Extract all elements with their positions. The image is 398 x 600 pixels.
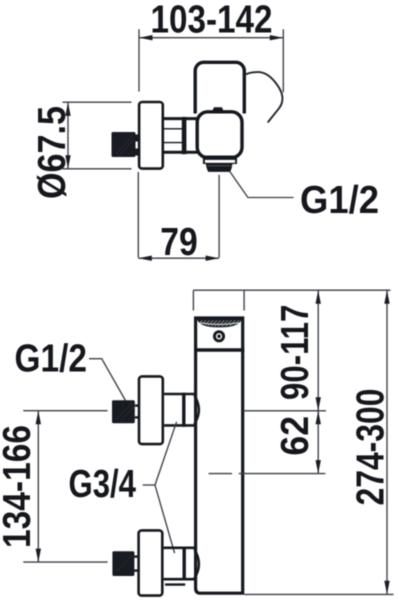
label G3/4 xyxy=(69,463,137,506)
wall nipple G1/2 thread (dark) xyxy=(112,132,140,157)
dimension line 103-142 xyxy=(139,35,283,40)
centerline of outlet (79 right extension) xyxy=(218,175,220,258)
svg-text:274-300: 274-300 xyxy=(350,389,393,506)
lever handle (upper rounded rect, clipped at body) xyxy=(195,62,244,134)
dimension line 274-300 xyxy=(384,289,389,594)
svg-text:90-117: 90-117 xyxy=(274,305,317,400)
extension line flange top xyxy=(63,101,132,103)
dimension text 103-142 xyxy=(151,0,273,42)
top extension line (dim 274-300 / 90-117) xyxy=(193,289,390,291)
centerline dash at outlet level xyxy=(209,473,326,475)
extension rectangle above bar (rail extent) xyxy=(193,290,244,310)
outlet collar xyxy=(203,156,237,165)
dimension 134-166 extension bottom xyxy=(23,561,107,563)
pipe between flange and body xyxy=(164,117,198,154)
dimension line 79 xyxy=(138,256,219,261)
extension line flange bottom xyxy=(63,168,132,170)
upper union nut xyxy=(164,393,199,427)
extension line left (wall plane) xyxy=(138,29,140,91)
extension line inlet center (right) xyxy=(244,410,326,412)
dimension text 274-300 (rotated) xyxy=(350,389,393,506)
svg-text:G3/4: G3/4 xyxy=(69,463,137,506)
leader line to G1/2 xyxy=(230,172,294,198)
upper nipple G1/2 thread (dark) xyxy=(112,400,138,423)
dimension text 90-117 (rotated) xyxy=(274,305,317,400)
dimension line 62 xyxy=(316,411,321,474)
dimension text 62 (rotated) xyxy=(274,416,317,456)
dimension line 90-117 xyxy=(316,290,321,411)
svg-text:134-166: 134-166 xyxy=(0,425,39,548)
dimension text 134-166 (rotated) xyxy=(0,425,39,548)
label G1/2 (inlet) xyxy=(15,338,88,381)
cartridge body (front rounded square) xyxy=(197,112,242,158)
screw on bar top xyxy=(214,332,223,341)
leader G3/4 fork xyxy=(143,422,177,553)
svg-text:79: 79 xyxy=(160,221,198,264)
dimension 134-166 extension top xyxy=(23,410,107,412)
leader G1/2 to nipple xyxy=(89,359,126,401)
dimension line 134-166 xyxy=(36,411,41,562)
hatched top cap xyxy=(198,320,241,327)
lower flange xyxy=(139,530,163,595)
dimension text 79 xyxy=(160,221,198,264)
upper flange xyxy=(139,376,163,444)
svg-text:G1/2: G1/2 xyxy=(15,338,88,381)
lower nipple G3/4 thread (dark) xyxy=(112,551,138,576)
divider line on bar xyxy=(194,348,244,352)
svg-text:103-142: 103-142 xyxy=(151,0,273,42)
wall flange (escutcheon) xyxy=(139,102,163,169)
extension line right (lever tip) xyxy=(282,29,284,92)
label G1/2 (outlet) xyxy=(300,179,379,222)
svg-text:G1/2: G1/2 xyxy=(300,179,379,222)
svg-text:62: 62 xyxy=(274,416,317,456)
outlet thread block G1/2 xyxy=(206,164,233,172)
dimension line Ø67.5 xyxy=(65,102,70,168)
bottom extension line xyxy=(244,593,393,595)
lower union nut xyxy=(164,547,199,585)
dimension text Ø67.5 (rotated) xyxy=(31,106,74,199)
bump on body top xyxy=(213,107,224,110)
lever arm curve (side profile) xyxy=(245,72,282,122)
extension line wall (79 left) xyxy=(137,172,139,258)
shower bar body xyxy=(196,318,243,593)
